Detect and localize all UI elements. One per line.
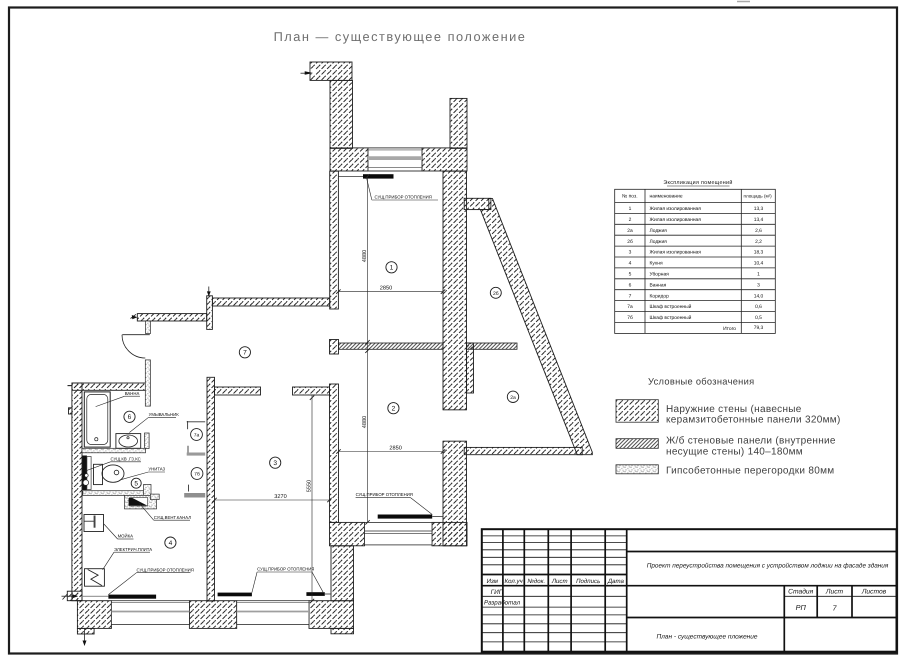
wall: room2 bottom window band right block	[432, 522, 467, 545]
closet 7a top bracket	[187, 421, 206, 429]
svg-text:1: 1	[757, 272, 760, 278]
dimension 4880 room1	[362, 174, 370, 348]
dimension 2850 room2	[336, 446, 445, 454]
svg-text:79,3: 79,3	[754, 325, 764, 331]
radiator room2	[378, 515, 433, 519]
partition: step block right of wc partition	[144, 485, 152, 496]
svg-text:13,3: 13,3	[754, 206, 764, 212]
closet mid shelf gray bar	[187, 446, 189, 453]
radiator kitchen	[82, 595, 108, 597]
title block outer frame	[482, 529, 897, 652]
svg-text:Дата: Дата	[607, 578, 625, 585]
room label 2a	[507, 391, 518, 402]
svg-text:2а: 2а	[627, 228, 633, 234]
svg-text:7б: 7б	[194, 472, 200, 478]
room number circles	[124, 262, 519, 549]
vent box black wedge	[129, 498, 148, 506]
wall: right tall exterior wall bottom	[331, 546, 354, 601]
svg-text:5550: 5550	[306, 480, 312, 492]
svg-text:0,5: 0,5	[755, 315, 762, 321]
window: kitchen bottom window	[111, 601, 189, 625]
svg-text:Ж/б стеновые панели (внутренни: Ж/б стеновые панели (внутренние	[666, 436, 836, 447]
wall: loggia trapezoid top bar	[464, 198, 491, 209]
svg-text:Наружние стены (навесные: Наружние стены (навесные	[666, 404, 802, 415]
label: bath	[96, 391, 140, 407]
tiny equipment labels with leaders	[85, 179, 438, 595]
dimension 3270 room3	[212, 494, 331, 502]
room label 7	[239, 347, 250, 358]
fixture: bath tub	[84, 392, 110, 447]
wall: room1 left wall	[330, 171, 339, 309]
svg-text:ГИП: ГИП	[491, 589, 504, 596]
label: radiator room1	[367, 179, 438, 200]
svg-text:2,6: 2,6	[755, 228, 762, 234]
partition: bathroom right wall lower piece	[145, 433, 150, 449]
svg-text:несущие стены) 140–180мм: несущие стены) 140–180мм	[666, 447, 803, 458]
label: vent channel	[139, 503, 191, 520]
svg-text:Ванная: Ванная	[650, 282, 667, 288]
svg-text:Коридор: Коридор	[650, 293, 670, 299]
svg-text:3: 3	[757, 282, 760, 288]
window: room1 top window	[368, 148, 422, 171]
svg-text:площадь (м²): площадь (м²)	[744, 194, 773, 199]
wall: room1 top window band left pier	[330, 148, 368, 171]
vent box inner white	[130, 498, 148, 506]
wall: top-left cap block of upper loggia	[310, 62, 352, 80]
mark: arrow atop entry wall	[207, 287, 211, 297]
mark: tick on bathroom wall top left	[68, 385, 73, 387]
svg-text:6: 6	[629, 282, 632, 288]
svg-text:2850: 2850	[389, 446, 401, 452]
wall: corner block under room2 window band left	[330, 522, 365, 545]
section arrows / ticks	[62, 69, 316, 647]
partition: vent box right step	[150, 494, 159, 499]
svg-text:наименование: наименование	[650, 195, 683, 200]
partition: between wc 5 and kitchen 4	[83, 491, 146, 496]
wall: bottom band right pier	[309, 601, 354, 629]
room label 2	[388, 403, 399, 414]
svg-text:СУЩ.ПРИБОР ОТОПЛЕНИЯ: СУЩ.ПРИБОР ОТОПЛЕНИЯ	[257, 567, 314, 572]
svg-text:Жилая изолированная: Жилая изолированная	[650, 217, 702, 223]
svg-text:УНИТАЗ: УНИТАЗ	[148, 467, 165, 472]
svg-text:СУЩ.ПРИБОР ОТОПЛЕНИЯ: СУЩ.ПРИБОР ОТОПЛЕНИЯ	[356, 492, 413, 497]
svg-text:4: 4	[169, 540, 173, 547]
entry door leaf	[122, 334, 150, 336]
fixture: riser pipes circles	[85, 474, 89, 478]
svg-text:7: 7	[243, 350, 247, 357]
svg-text:Лоджия: Лоджия	[650, 239, 668, 245]
wall: left wall small protrusion	[69, 408, 73, 414]
svg-text:2б: 2б	[493, 291, 499, 297]
svg-text:3: 3	[273, 460, 277, 467]
wall: room1 top window band right pier	[422, 148, 467, 171]
svg-text:Жилая изолированная: Жилая изолированная	[650, 206, 702, 212]
wall: bottom-left corner block	[67, 591, 82, 601]
wall: loggia trapezoid slanted wall	[480, 199, 592, 455]
room label 7a	[191, 429, 203, 441]
svg-text:РП: РП	[796, 603, 807, 612]
svg-text:2: 2	[392, 406, 396, 413]
svg-text:Стадия: Стадия	[788, 589, 813, 596]
wall: main right wall lower segment	[443, 441, 467, 546]
mark: tick left of entry horizontal wall	[131, 314, 138, 319]
title block	[482, 529, 897, 652]
mark: arrow at kitchen bottom left	[62, 594, 79, 600]
svg-text:0,6: 0,6	[755, 304, 762, 310]
wall: loggia trapezoid bottom bar	[464, 447, 582, 454]
wall: partition between rooms 1 and 2	[339, 343, 444, 349]
wall: pier stub left of partition room1/2	[330, 340, 339, 355]
legend swatch: rc panels	[616, 439, 658, 449]
svg-text:ВАННА: ВАННА	[125, 391, 140, 396]
wall: main right wall upper segment	[443, 171, 467, 410]
wall: left exterior wall	[72, 383, 82, 601]
svg-text:Гипсобетонные перегородки 80мм: Гипсобетонные перегородки 80мм	[666, 465, 834, 476]
wall: room3 top wall left segment	[215, 387, 261, 395]
room schedule table	[615, 180, 776, 333]
title block thick horizontals	[482, 552, 897, 618]
svg-text:№ поз.: № поз.	[622, 194, 638, 200]
svg-text:1: 1	[629, 206, 632, 212]
room label 3	[270, 457, 281, 468]
svg-text:2б: 2б	[627, 239, 633, 245]
fixture: toilet	[94, 464, 125, 484]
svg-text:6: 6	[128, 414, 132, 421]
svg-text:5: 5	[134, 481, 138, 488]
svg-text:10,4: 10,4	[754, 261, 764, 267]
wall: room3 top wall right segment	[293, 387, 330, 395]
window: room2 bottom loggia window	[365, 522, 433, 545]
wall: bathroom top wall	[72, 383, 146, 390]
svg-text:Уборная: Уборная	[650, 272, 670, 278]
table rows	[627, 206, 633, 321]
label: risers	[85, 456, 141, 471]
svg-text:2а: 2а	[510, 395, 516, 401]
opening: main wall gap to loggia 2a edge caps	[443, 410, 467, 441]
window: room3 bottom window	[237, 601, 309, 625]
mark: arrow left of top cap	[301, 69, 316, 75]
wall: room3 right wall	[330, 384, 339, 522]
title block thick verticals	[503, 529, 784, 652]
svg-text:3: 3	[629, 250, 632, 256]
svg-text:Лист: Лист	[825, 589, 844, 596]
fixture: riser black bar in wc	[82, 456, 87, 491]
svg-text:7а: 7а	[627, 304, 633, 310]
wall: main right wall step strip	[467, 343, 474, 393]
room label 5	[131, 478, 141, 488]
room label 1	[386, 262, 397, 273]
svg-text:5: 5	[629, 272, 632, 278]
wall: bottom band right pier foot	[331, 628, 354, 633]
partition: vent box outline	[125, 495, 157, 509]
scan artifact top	[737, 1, 750, 3]
label: toilet	[120, 467, 166, 480]
svg-text:7: 7	[629, 293, 632, 299]
wall: entry horizontal wall	[137, 314, 206, 321]
label: wash basin	[129, 412, 179, 433]
fixture: electric stove	[85, 569, 105, 587]
svg-text:7б: 7б	[627, 315, 633, 321]
svg-text:2850: 2850	[380, 286, 392, 292]
wall: bottom band left pier foot	[77, 628, 94, 634]
svg-text:2: 2	[629, 217, 632, 223]
partition: between bathroom 6 and wc 5	[82, 448, 146, 453]
wall: partition between loggias 2b and 2a	[467, 343, 518, 349]
svg-text:№док.: №док.	[527, 578, 545, 585]
svg-text:13,4: 13,4	[754, 217, 764, 223]
svg-text:керамзитобетонные панели 320мм: керамзитобетонные панели 320мм)	[666, 415, 841, 426]
wall: upper loggia right wall	[450, 98, 467, 148]
svg-text:Лоджия: Лоджия	[650, 228, 668, 234]
svg-text:1: 1	[390, 265, 394, 272]
partition: corridor/bathroom wall below entry door	[145, 360, 150, 406]
wall: bottom band center pier	[189, 601, 236, 629]
entry door swing arc	[122, 335, 145, 358]
svg-text:7а: 7а	[194, 433, 200, 439]
svg-text:Проект переустройства помещени: Проект переустройства помещения с устрой…	[647, 563, 889, 570]
svg-text:Условные обозначения: Условные обозначения	[648, 377, 754, 387]
label: kitchen sink	[104, 524, 134, 539]
wall: corridor top wall	[212, 298, 329, 306]
svg-text:4880: 4880	[362, 416, 368, 428]
svg-text:СУЩ.ПРИБОР ОТОПЛЕНИЯ: СУЩ.ПРИБОР ОТОПЛЕНИЯ	[137, 567, 194, 572]
fixture: wash basin	[116, 434, 141, 449]
wall: bottom band left pier	[77, 601, 111, 629]
mark: down arrow below bottom-left pier	[83, 628, 87, 646]
svg-text:Кол.уч: Кол.уч	[505, 578, 524, 585]
closet bottom shelf gray bar	[188, 485, 190, 492]
legend swatch: gypsum partitions	[616, 465, 658, 474]
label: radiator room2	[356, 492, 433, 514]
wall: interior bearing wall B	[207, 377, 215, 601]
svg-text:Изм: Изм	[487, 578, 499, 585]
svg-text:Шкаф встроенный: Шкаф встроенный	[650, 304, 692, 310]
svg-text:СУЩ.КВ .ГЗ.КС: СУЩ.КВ .ГЗ.КС	[111, 456, 141, 461]
svg-text:Разработал: Разработал	[484, 600, 521, 607]
dimension 2850 room1	[336, 286, 445, 294]
svg-text:СУЩ.ВЕНТ.КАНАЛ: СУЩ.ВЕНТ.КАНАЛ	[154, 515, 192, 520]
svg-text:Кухня: Кухня	[650, 261, 663, 267]
svg-text:4880: 4880	[362, 250, 368, 262]
wall: entry vertical wall	[207, 296, 213, 330]
room label 6	[124, 411, 135, 422]
label: electric stove	[103, 547, 153, 570]
label: radiator kitchen	[108, 567, 193, 594]
title block thin horizontals left	[482, 536, 897, 642]
table grid	[615, 189, 776, 333]
radiator room1	[339, 175, 364, 177]
legend	[616, 377, 841, 477]
radiator room3 left	[218, 593, 252, 597]
svg-text:СУЩ.ПРИБОР ОТОПЛЕНИЯ: СУЩ.ПРИБОР ОТОПЛЕНИЯ	[375, 195, 432, 200]
svg-text:МОЙКА: МОЙКА	[118, 534, 134, 539]
svg-text:14,0: 14,0	[754, 293, 764, 299]
room label 7b	[191, 468, 203, 480]
legend swatch: exterior walls	[616, 400, 658, 423]
svg-text:Подпись: Подпись	[576, 578, 600, 585]
svg-text:Жилая изолированная: Жилая изолированная	[650, 250, 702, 256]
svg-text:ЭЛЕКТРИЧ.ПЛИТА: ЭЛЕКТРИЧ.ПЛИТА	[114, 547, 152, 552]
dimension 4880 room2	[362, 349, 370, 525]
room label 2b	[490, 287, 501, 298]
svg-text:4: 4	[629, 261, 632, 267]
room label 4	[165, 537, 176, 548]
svg-text:План - существующее пложение: План - существующее пложение	[656, 634, 757, 641]
svg-text:2,2: 2,2	[755, 239, 762, 245]
svg-text:18,3: 18,3	[754, 250, 764, 256]
title block header texts	[487, 578, 625, 585]
svg-text:Листов: Листов	[861, 589, 887, 596]
svg-text:Экспликация помещений: Экспликация помещений	[663, 180, 732, 186]
partition: door jamb above entry door	[146, 321, 151, 334]
svg-text:Шкаф встроенный: Шкаф встроенный	[650, 315, 692, 321]
radiator room3 right	[306, 592, 324, 596]
svg-text:3270: 3270	[274, 494, 286, 500]
label: radiators room3	[252, 567, 323, 593]
svg-text:План — существующее положение: План — существующее положение	[274, 29, 527, 44]
wall: upper loggia left wall	[330, 80, 353, 148]
stage cells	[788, 589, 887, 596]
svg-text:Лист: Лист	[551, 578, 568, 585]
dimension 5550 room3	[306, 396, 314, 604]
svg-text:УМЫВАЛЬНИК: УМЫВАЛЬНИК	[149, 412, 180, 417]
svg-text:Итого: Итого	[723, 326, 736, 332]
fixture: kitchen sink	[84, 515, 104, 532]
